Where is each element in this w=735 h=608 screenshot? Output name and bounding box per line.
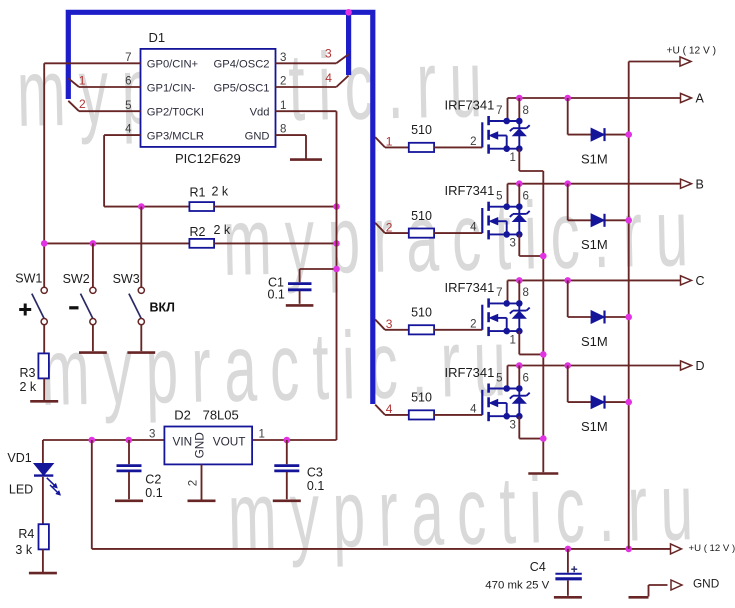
svg-text:+U ( 12 V ): +U ( 12 V ) [689,543,735,554]
svg-text:2 k: 2 k [212,185,229,199]
svg-text:GP3/MCLR: GP3/MCLR [147,131,204,143]
svg-text:1: 1 [510,334,516,346]
svg-text:C2: C2 [145,472,161,486]
svg-text:GP4/OSC2: GP4/OSC2 [214,59,270,71]
svg-text:C4: C4 [530,560,546,574]
svg-text:6: 6 [523,372,529,384]
svg-text:A: A [696,92,705,106]
svg-text:2: 2 [280,76,286,88]
svg-text:VD1: VD1 [7,451,31,465]
svg-text:3: 3 [149,429,155,441]
svg-text:ВКЛ: ВКЛ [150,300,175,314]
svg-text:PIC12F629: PIC12F629 [175,151,241,166]
svg-text:7: 7 [496,287,502,299]
svg-text:GND: GND [245,131,270,143]
svg-text:2 k: 2 k [20,380,37,394]
svg-text:4: 4 [325,71,332,85]
svg-text:VOUT: VOUT [213,435,246,449]
svg-text:510: 510 [411,306,432,320]
svg-text:4: 4 [125,124,132,136]
svg-text:GP1/CIN-: GP1/CIN- [147,82,196,94]
svg-text:0.1: 0.1 [145,486,162,500]
svg-text:510: 510 [411,123,432,137]
svg-text:0.1: 0.1 [268,287,285,301]
svg-text:1: 1 [510,152,516,164]
svg-text:2: 2 [79,97,86,111]
svg-text:S1M: S1M [581,334,608,349]
svg-text:510: 510 [411,209,432,223]
svg-text:R1: R1 [190,186,206,200]
svg-text:+U ( 12 V ): +U ( 12 V ) [667,45,717,56]
svg-text:D1: D1 [149,30,166,45]
svg-text:3 k: 3 k [15,543,32,557]
svg-text:D: D [696,359,705,373]
svg-text:510: 510 [411,391,432,405]
svg-text:GP2/T0CKI: GP2/T0CKI [147,107,204,119]
svg-text:1: 1 [280,100,286,112]
svg-text:GP5/OSC1: GP5/OSC1 [214,82,270,94]
svg-text:470 mk 25 V: 470 mk 25 V [485,580,549,592]
svg-text:8: 8 [280,124,286,136]
svg-text:B: B [696,177,704,191]
svg-text:IRF7341: IRF7341 [445,98,495,113]
svg-text:C3: C3 [307,465,323,479]
svg-text:GP0/CIN+: GP0/CIN+ [147,59,198,71]
svg-text:2: 2 [470,136,476,148]
svg-text:IRF7341: IRF7341 [445,280,495,295]
svg-text:R3: R3 [20,366,36,380]
svg-text:1: 1 [259,429,265,441]
svg-text:5: 5 [125,100,131,112]
svg-text:S1M: S1M [581,419,608,434]
svg-text:3: 3 [510,420,516,432]
svg-text:8: 8 [523,105,529,117]
svg-text:5: 5 [496,372,502,384]
svg-text:7: 7 [496,105,502,117]
svg-text:2: 2 [470,318,476,330]
svg-text:3: 3 [325,46,332,60]
svg-text:78L05: 78L05 [203,408,239,423]
svg-text:4: 4 [470,404,477,416]
svg-text:LED: LED [9,482,33,496]
svg-text:5: 5 [496,191,502,203]
svg-text:SW2: SW2 [63,272,90,286]
svg-text:3: 3 [280,52,286,64]
svg-text:C: C [696,274,705,288]
svg-text:S1M: S1M [581,237,608,252]
svg-text:0.1: 0.1 [307,479,324,493]
svg-text:R2: R2 [190,225,206,239]
svg-text:R4: R4 [18,527,34,541]
svg-text:Vdd: Vdd [250,107,270,119]
svg-text:7: 7 [125,52,131,64]
svg-text:GND: GND [193,432,207,458]
svg-text:VIN: VIN [173,435,193,449]
svg-text:S1M: S1M [581,152,608,167]
svg-text:1: 1 [79,73,86,87]
svg-text:6: 6 [125,76,131,88]
svg-text:D2: D2 [174,408,191,423]
svg-text:SW3: SW3 [113,272,140,286]
svg-text:IRF7341: IRF7341 [445,183,495,198]
svg-text:2: 2 [188,480,200,486]
svg-text:SW1: SW1 [15,272,42,286]
svg-text:GND: GND [693,576,719,590]
svg-text:8: 8 [523,287,529,299]
svg-text:IRF7341: IRF7341 [445,365,495,380]
svg-text:2 k: 2 k [214,223,231,237]
svg-text:6: 6 [523,191,529,203]
svg-text:4: 4 [470,222,477,234]
svg-text:3: 3 [510,238,516,250]
